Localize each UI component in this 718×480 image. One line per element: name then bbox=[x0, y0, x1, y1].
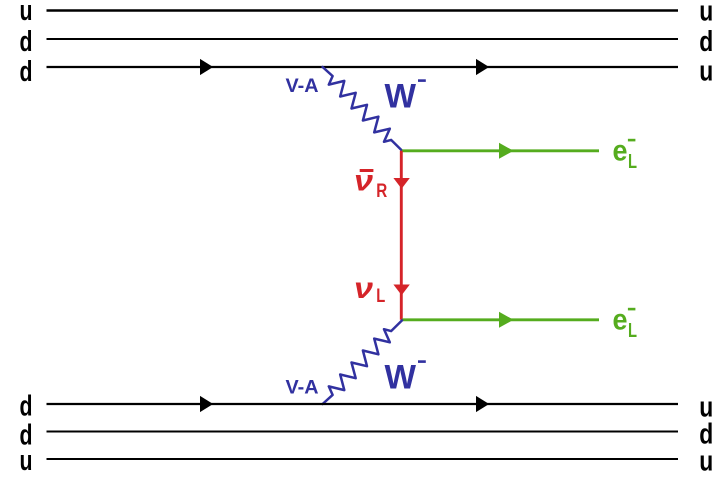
arrow electron top bbox=[499, 143, 514, 159]
svg-text:u: u bbox=[20, 445, 33, 475]
label e superscript minus top bbox=[628, 139, 636, 142]
quark line d (bottom 2) bbox=[47, 431, 679, 433]
quark line d to u (bottom 1) bbox=[47, 403, 679, 405]
svg-text:ν: ν bbox=[354, 272, 373, 305]
electron line top bbox=[402, 149, 599, 152]
label e superscript minus bottom bbox=[628, 308, 636, 311]
svg-text:W: W bbox=[385, 358, 417, 396]
svg-text:L: L bbox=[628, 320, 637, 342]
arrow electron bottom bbox=[499, 312, 514, 328]
arrow top3 left bbox=[200, 59, 213, 75]
svg-text:u: u bbox=[699, 0, 713, 27]
arrow neutrino upper bbox=[393, 178, 409, 189]
quark line u (top 1) bbox=[47, 9, 679, 11]
svg-text:V-A: V-A bbox=[286, 76, 319, 97]
svg-text:u: u bbox=[20, 0, 33, 27]
svg-text:e: e bbox=[613, 135, 628, 168]
nu-bar overline bbox=[360, 169, 374, 172]
quark line d (top 2) bbox=[47, 38, 679, 40]
svg-text:u: u bbox=[699, 55, 713, 87]
svg-text:e: e bbox=[613, 304, 628, 337]
svg-text:R: R bbox=[376, 181, 387, 202]
svg-text:d: d bbox=[20, 26, 33, 58]
neutrino propagator line bbox=[400, 151, 403, 320]
svg-text:L: L bbox=[376, 286, 385, 307]
arrow bottom1 right bbox=[476, 396, 489, 412]
arrow top3 right bbox=[476, 59, 489, 75]
svg-text:d: d bbox=[20, 391, 33, 423]
electron line bottom bbox=[402, 318, 599, 321]
svg-text:u: u bbox=[699, 445, 713, 475]
label W superscript minus bottom bbox=[418, 360, 426, 363]
arrow neutrino lower bbox=[393, 285, 409, 296]
W boson wavy line bottom bbox=[323, 320, 402, 404]
arrow bottom1 left bbox=[200, 396, 213, 412]
quark line u (bottom 3) bbox=[47, 458, 679, 460]
label W superscript minus top bbox=[418, 79, 426, 82]
svg-text:W: W bbox=[385, 77, 417, 115]
svg-text:d: d bbox=[699, 26, 713, 58]
svg-text:V-A: V-A bbox=[286, 378, 319, 399]
quark line d to u (top 3) bbox=[47, 66, 679, 68]
W boson wavy line top bbox=[323, 67, 402, 151]
svg-text:L: L bbox=[628, 151, 637, 173]
svg-text:d: d bbox=[20, 56, 33, 88]
